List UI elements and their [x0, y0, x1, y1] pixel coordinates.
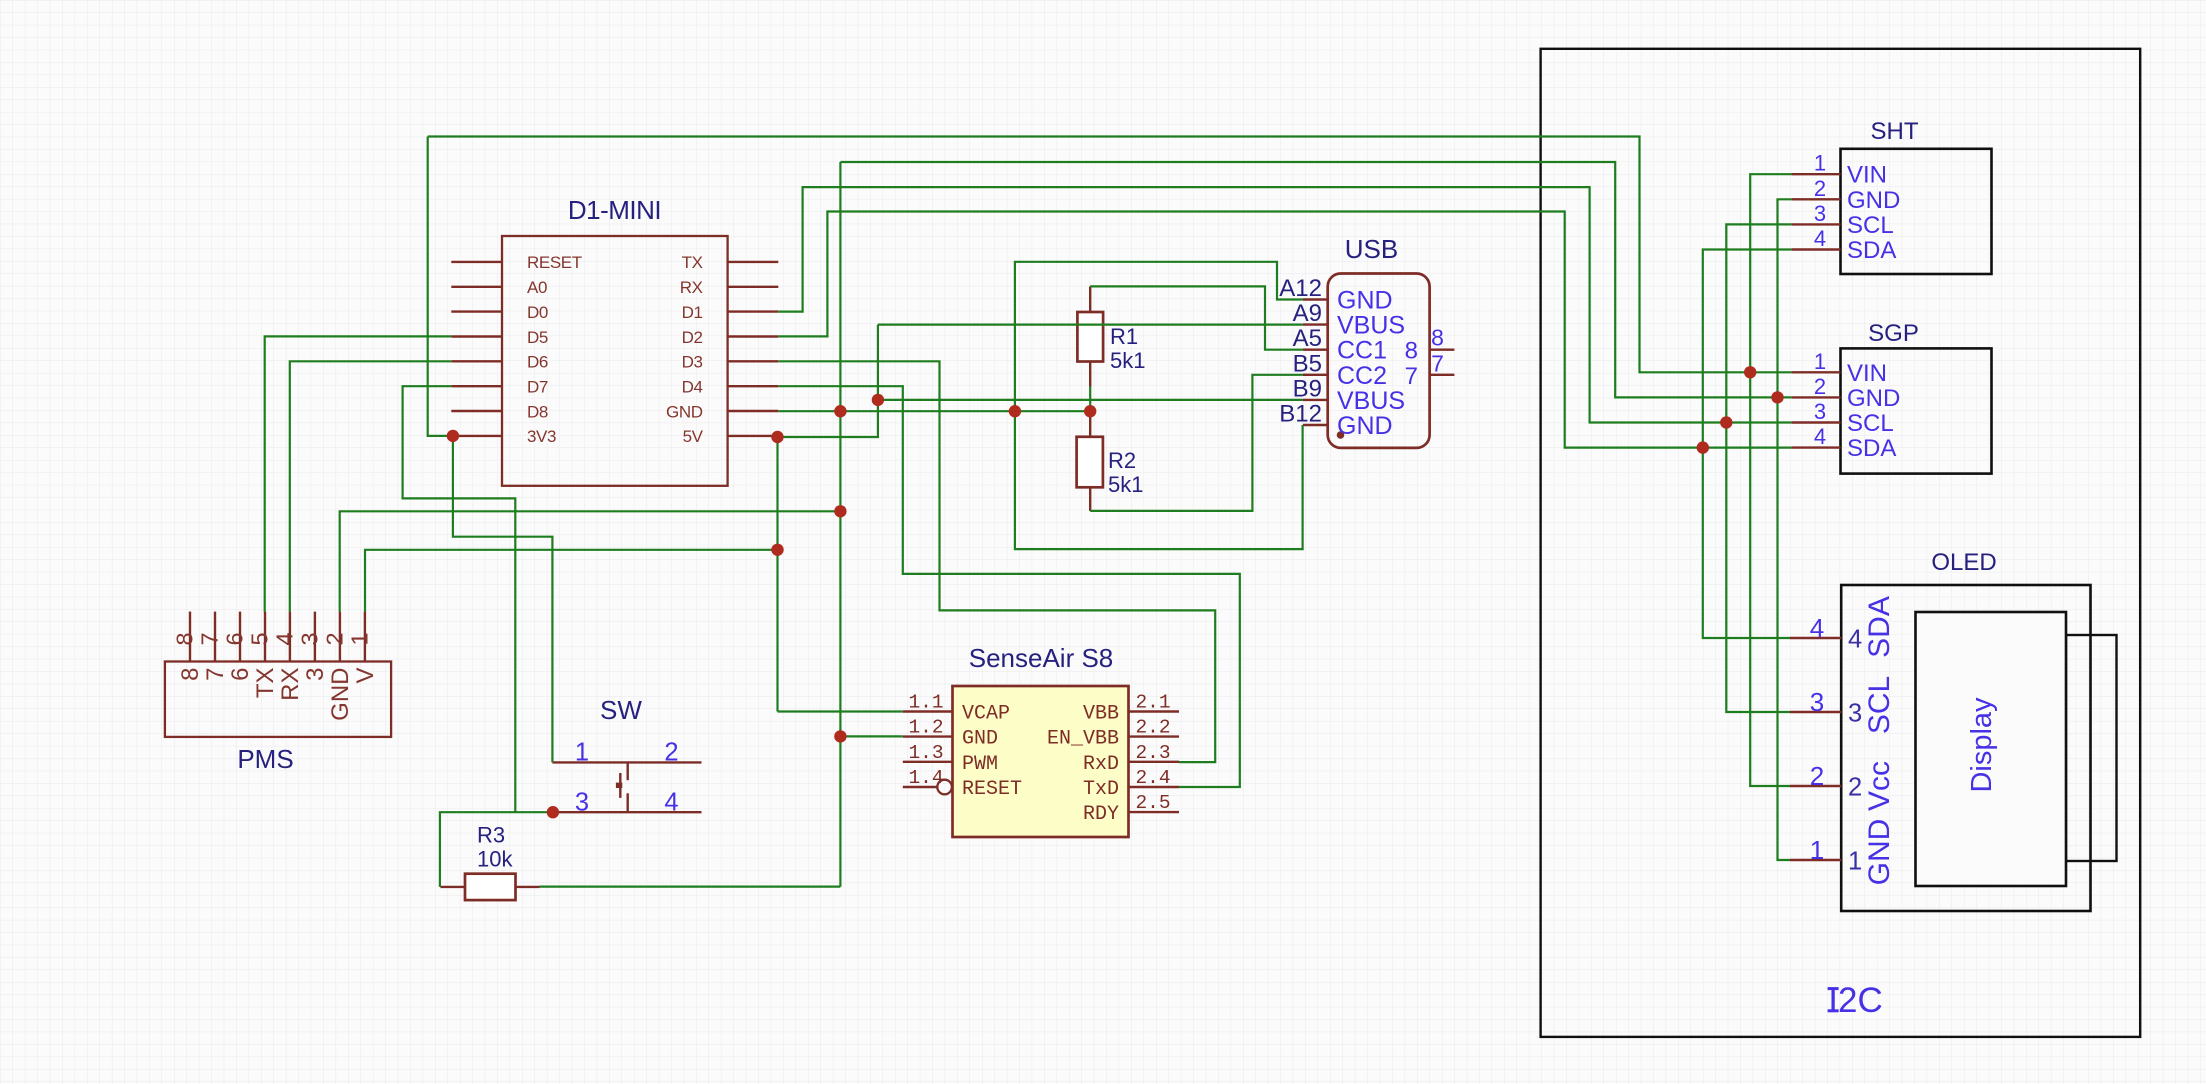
svg-text:RDY: RDY	[1083, 803, 1119, 826]
connector PMS body	[165, 662, 391, 737]
svg-text:4: 4	[271, 632, 297, 645]
pin D4 stub D1-MINI	[728, 385, 779, 387]
svg-text:SDA: SDA	[1863, 596, 1896, 658]
svg-text:3: 3	[1814, 201, 1826, 226]
svg-text:SCL: SCL	[1847, 212, 1894, 239]
pin D3 stub D1-MINI	[728, 360, 779, 362]
pin B9 stub USB	[1303, 399, 1328, 401]
svg-text:6: 6	[227, 668, 254, 681]
connector USB body	[1328, 274, 1430, 448]
svg-text:SDA: SDA	[1847, 237, 1896, 264]
svg-text:3: 3	[1848, 700, 1862, 728]
pin 3 stub OLED	[1790, 711, 1841, 713]
pin 4 stub SGP	[1792, 446, 1841, 448]
wire VBUS to USB B9	[878, 399, 1303, 401]
wire 3V3 rail top	[428, 137, 1792, 373]
pin RESET inversion bubble S8	[937, 780, 952, 795]
svg-text:4: 4	[1810, 613, 1824, 643]
svg-text:7: 7	[1431, 351, 1444, 377]
svg-text:1.4: 1.4	[908, 767, 943, 789]
svg-text:6: 6	[222, 632, 248, 645]
svg-text:V: V	[352, 668, 379, 684]
svg-text:D5: D5	[527, 328, 548, 347]
svg-text:TxD: TxD	[1083, 778, 1119, 801]
pin 3 stub SGP	[1792, 421, 1841, 423]
wire D5 to PMS TX	[265, 336, 452, 611]
display connector box	[2066, 635, 2117, 861]
pin 7 stub USB	[1430, 374, 1455, 376]
svg-text:1.3: 1.3	[908, 742, 943, 764]
wire 3V3 to SW pin1	[453, 436, 553, 763]
svg-text:CC2: CC2	[1337, 362, 1387, 390]
ic SenseAir S8 body	[953, 686, 1129, 837]
wire 5V to VBUS riser	[778, 325, 878, 437]
pin 1.4 stub S8	[903, 786, 937, 788]
svg-text:4: 4	[1848, 626, 1862, 654]
pin D1 stub D1-MINI	[728, 310, 779, 312]
svg-text:VBUS: VBUS	[1337, 387, 1405, 415]
svg-text:GND: GND	[962, 728, 998, 751]
svg-text:1: 1	[1810, 835, 1824, 865]
pin 2 stub SGP	[1792, 396, 1841, 398]
wire GND vertical main	[839, 162, 841, 887]
svg-text:5: 5	[247, 632, 273, 645]
svg-text:GND: GND	[666, 402, 703, 421]
junction SGP GND	[1771, 391, 1783, 403]
pin 6 stub PMS	[239, 612, 241, 662]
ic U1 D1-MINI body	[502, 236, 728, 486]
junction GND PMS branch	[834, 505, 846, 517]
svg-text:D7: D7	[527, 378, 548, 397]
svg-text:3: 3	[302, 668, 329, 681]
pin 3 stub PMS	[314, 612, 316, 662]
pin 2.2 stub S8	[1129, 735, 1180, 737]
pin 1 stub SHT	[1792, 173, 1841, 175]
svg-text:8: 8	[1431, 325, 1444, 351]
svg-text:2.3: 2.3	[1135, 742, 1170, 764]
svg-text:EN_VBB: EN_VBB	[1047, 728, 1119, 751]
svg-text:TX: TX	[252, 668, 279, 699]
pin 2.1 stub S8	[1129, 710, 1180, 712]
svg-text:SDA: SDA	[1847, 435, 1896, 462]
svg-text:4: 4	[1814, 424, 1826, 449]
pin 2 stub PMS	[339, 612, 341, 662]
svg-text:GND: GND	[1337, 412, 1393, 440]
pin A0 stub D1-MINI	[451, 286, 502, 288]
svg-text:VIN: VIN	[1847, 162, 1887, 189]
svg-text:A12: A12	[1279, 275, 1322, 302]
wire GND rail D1-MINI	[778, 410, 1090, 412]
svg-text:7: 7	[1405, 363, 1418, 390]
pin 2.5 stub S8	[1129, 811, 1180, 813]
svg-text:VCAP: VCAP	[962, 703, 1010, 726]
junction GND rail a	[834, 405, 846, 417]
svg-text:RxD: RxD	[1083, 753, 1119, 776]
pin 1 stub OLED	[1790, 859, 1841, 861]
svg-text:3: 3	[1810, 687, 1824, 717]
pin 8 stub USB	[1430, 349, 1455, 351]
resistor R3 right stub	[516, 886, 540, 888]
svg-text:R3: R3	[477, 823, 505, 848]
resistor R1 top stub	[1089, 286, 1091, 312]
wire 5V to S8 VCAP	[778, 710, 903, 712]
svg-text:2: 2	[321, 632, 347, 645]
svg-text:PMS: PMS	[237, 744, 293, 774]
svg-text:3: 3	[575, 789, 589, 817]
junction SW pin3	[547, 806, 559, 818]
svg-text:2.2: 2.2	[1135, 717, 1170, 739]
wire 5V vertical	[776, 437, 778, 712]
wire 3V3 to D1-MINI pin	[428, 137, 453, 436]
svg-text:2: 2	[1848, 774, 1862, 802]
wire D6 to PMS RX	[290, 361, 452, 611]
svg-text:GND: GND	[327, 668, 354, 721]
wire D1 to SCL	[778, 187, 1791, 422]
svg-text:SCL: SCL	[1847, 410, 1894, 437]
junction VBUS	[872, 394, 884, 406]
svg-text:5V: 5V	[683, 427, 704, 446]
pin 1.2 stub S8	[903, 735, 953, 737]
svg-text:D2: D2	[682, 328, 703, 347]
svg-text:GND: GND	[1847, 385, 1900, 412]
svg-text:B9: B9	[1293, 375, 1322, 402]
svg-text:3: 3	[1814, 399, 1826, 424]
pin B5 stub USB	[1303, 374, 1328, 376]
svg-text:SGP: SGP	[1868, 320, 1919, 347]
resistor R2 body	[1077, 437, 1103, 488]
junction GND rail b	[1009, 405, 1021, 417]
svg-text:R2: R2	[1108, 448, 1136, 473]
wire GND to USB A12	[1015, 262, 1303, 411]
pin 1.1 stub S8	[903, 710, 953, 712]
group box I2C	[1541, 49, 2141, 1037]
svg-text:D4: D4	[682, 378, 703, 397]
wire R1 bottom to GND	[1089, 387, 1091, 412]
svg-text:TX: TX	[682, 253, 703, 272]
module OLED body	[1841, 585, 2090, 911]
svg-text:1: 1	[1814, 349, 1826, 374]
svg-text:RX: RX	[277, 668, 304, 701]
wire D4 to S8 TxD	[778, 386, 1240, 787]
wire R2 to USB CC2	[1090, 375, 1303, 511]
pin 1 stub PMS	[364, 612, 366, 662]
svg-text:2.4: 2.4	[1135, 767, 1170, 789]
svg-text:4: 4	[664, 789, 678, 817]
svg-text:GND: GND	[1863, 819, 1896, 886]
resistor R2 top stub	[1089, 411, 1091, 437]
junction SGP SCL	[1720, 416, 1732, 428]
svg-text:4: 4	[1814, 226, 1826, 251]
pin RESET stub D1-MINI	[451, 261, 502, 263]
svg-text:D8: D8	[527, 402, 548, 421]
svg-text:VIN: VIN	[1847, 360, 1887, 387]
svg-text:1.1: 1.1	[908, 692, 943, 714]
wire SDA chain SHT-SGP-OLED	[1703, 250, 1792, 639]
pin 2.3 stub S8	[1129, 761, 1180, 763]
resistor R3 left stub	[440, 886, 465, 888]
pin TX stub D1-MINI	[728, 261, 779, 263]
junction GND R2	[1084, 405, 1096, 417]
svg-text:7: 7	[202, 668, 229, 681]
svg-text:5k1: 5k1	[1110, 348, 1145, 373]
switch SW contact bottom	[553, 811, 702, 813]
pin D0 stub D1-MINI	[451, 310, 502, 312]
wire VIN chain SHT-SGP-OLED	[1750, 174, 1791, 786]
svg-text:D6: D6	[527, 353, 548, 372]
svg-text:A0: A0	[527, 278, 547, 297]
svg-text:A9: A9	[1293, 300, 1322, 327]
wire 5V to PMS pin1	[365, 550, 778, 612]
pin 7 stub PMS	[214, 612, 216, 662]
junction 5V PMS branch	[771, 544, 783, 556]
label I2C serif bars	[1828, 987, 1839, 990]
svg-text:1: 1	[346, 632, 372, 645]
pin 4 stub OLED	[1790, 637, 1841, 639]
wire GND chain SHT-SGP-OLED	[1778, 199, 1792, 860]
wire D3 to S8 RxD	[778, 361, 1215, 762]
svg-text:8: 8	[177, 668, 204, 681]
svg-text:B12: B12	[1279, 401, 1322, 428]
pin 1 stub SGP	[1792, 371, 1841, 373]
module SGP body	[1841, 348, 1992, 473]
wire D7 to SW pin3	[403, 386, 516, 812]
resistor R1 bottom stub	[1089, 362, 1091, 387]
svg-text:CC1: CC1	[1337, 337, 1387, 365]
svg-text:SCL: SCL	[1863, 676, 1896, 734]
svg-text:VBUS: VBUS	[1337, 312, 1405, 340]
svg-text:D0: D0	[527, 303, 548, 322]
pin 1.3 stub S8	[903, 761, 953, 763]
pin 8 stub PMS	[189, 612, 191, 662]
pin D8 stub D1-MINI	[451, 410, 502, 412]
pin 2 stub SHT	[1792, 198, 1841, 200]
pin D6 stub D1-MINI	[451, 360, 502, 362]
pin 4 stub PMS	[289, 612, 291, 662]
pin D2 stub D1-MINI	[728, 335, 779, 337]
svg-text:Vcc: Vcc	[1863, 761, 1896, 811]
pin 2.4 stub S8	[1129, 786, 1180, 788]
svg-text:R1: R1	[1110, 324, 1138, 349]
svg-text:D1-MINI: D1-MINI	[568, 195, 661, 225]
svg-text:OLED: OLED	[1931, 549, 1996, 576]
switch SW actuator bar	[619, 773, 621, 798]
resistor R1 body	[1077, 312, 1103, 362]
pin 3V3 stub D1-MINI	[451, 435, 502, 437]
junction 3V3	[447, 430, 459, 442]
pin 5V stub D1-MINI	[728, 435, 779, 437]
svg-text:GND: GND	[1847, 187, 1900, 214]
pin 1 marker dot USB	[1337, 431, 1345, 439]
svg-text:D1: D1	[682, 303, 703, 322]
wire VBUS to USB A9	[878, 324, 1303, 326]
pin A5 stub USB	[1303, 349, 1328, 351]
module SHT body	[1841, 149, 1992, 274]
svg-text:A5: A5	[1293, 325, 1322, 352]
svg-text:2: 2	[664, 739, 678, 767]
svg-text:2: 2	[1814, 374, 1826, 399]
pin 3 stub SHT	[1792, 223, 1841, 225]
svg-text:3V3: 3V3	[527, 427, 556, 446]
wire D2 to SDA	[778, 212, 1791, 448]
svg-text:2: 2	[1810, 761, 1824, 791]
pin A12 stub USB	[1303, 298, 1328, 300]
pin A9 stub USB	[1303, 323, 1328, 325]
svg-text:10k: 10k	[477, 847, 513, 872]
wire R1 to USB CC1	[1090, 286, 1303, 349]
svg-text:8: 8	[172, 632, 198, 645]
svg-text:5k1: 5k1	[1108, 472, 1143, 497]
svg-text:8: 8	[1405, 338, 1418, 365]
svg-text:B5: B5	[1293, 350, 1322, 377]
pin 2 stub OLED	[1790, 785, 1841, 787]
pin RX stub D1-MINI	[728, 286, 779, 288]
svg-text:7: 7	[197, 632, 223, 645]
svg-text:D3: D3	[682, 353, 703, 372]
wire GND to S8 pin1.2	[840, 735, 902, 737]
pin 5 stub PMS	[264, 612, 266, 662]
pin GND stub D1-MINI	[728, 410, 779, 412]
svg-text:SHT: SHT	[1871, 118, 1919, 145]
resistor R3 body	[465, 874, 516, 900]
pin B12 stub USB	[1303, 424, 1328, 426]
svg-text:VBB: VBB	[1083, 703, 1119, 726]
svg-text:GND: GND	[1337, 287, 1393, 315]
junction SGP VIN	[1744, 366, 1756, 378]
svg-text:RX: RX	[680, 278, 703, 297]
svg-text:SenseAir S8: SenseAir S8	[969, 643, 1114, 673]
svg-text:I2C: I2C	[1828, 981, 1882, 1020]
wire R3 to GND	[540, 885, 841, 887]
svg-text:1: 1	[575, 739, 589, 767]
pin D7 stub D1-MINI	[451, 385, 502, 387]
wire GND to USB B12	[1015, 411, 1303, 549]
wire SCL chain SHT-SGP-OLED	[1726, 224, 1791, 712]
switch SW contact top	[552, 761, 701, 763]
pin 4 stub SHT	[1792, 248, 1841, 250]
svg-text:PWM: PWM	[962, 753, 998, 776]
junction GND S8 branch	[834, 730, 846, 742]
svg-text:USB: USB	[1345, 234, 1398, 264]
svg-text:1.2: 1.2	[908, 717, 943, 739]
svg-text:RESET: RESET	[527, 253, 582, 272]
resistor R2 bottom stub	[1089, 487, 1091, 511]
junction SGP SDA	[1697, 441, 1709, 453]
wire SW pin3 to R3	[440, 812, 553, 887]
svg-text:2.1: 2.1	[1135, 692, 1170, 714]
switch SW plunger	[627, 762, 629, 780]
svg-text:RESET: RESET	[962, 778, 1022, 801]
svg-text:2: 2	[1814, 176, 1826, 201]
wire GND rail top	[840, 162, 1791, 397]
svg-text:1: 1	[1848, 848, 1862, 876]
pin D5 stub D1-MINI	[451, 335, 502, 337]
wire GND to PMS pin2	[340, 511, 841, 611]
svg-text:1: 1	[1814, 151, 1826, 176]
svg-text:Display: Display	[1966, 697, 1998, 793]
svg-text:2.5: 2.5	[1135, 792, 1170, 814]
svg-text:SW: SW	[600, 695, 642, 725]
display outline box	[1916, 612, 2067, 886]
svg-text:3: 3	[296, 632, 322, 645]
junction 5V pin	[771, 431, 783, 443]
